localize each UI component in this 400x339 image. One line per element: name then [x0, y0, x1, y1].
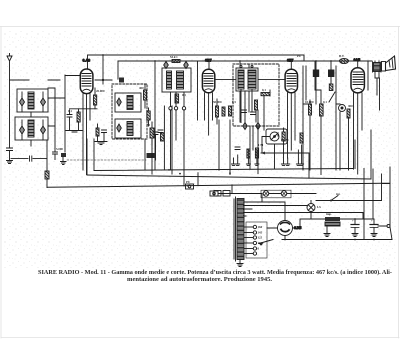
resistor R5 (between trimmers)	[172, 60, 180, 63]
tap labels	[258, 225, 263, 251]
wire V2 pins	[205, 93, 213, 135]
capacitor C9	[242, 110, 247, 113]
electrolytic capacitor CE1	[351, 219, 359, 237]
bus line 2	[87, 175, 371, 179]
page border faint line right	[398, 27, 400, 339]
resistor R11	[255, 100, 258, 110]
transformer top taps	[244, 202, 364, 219]
junction (osc)	[102, 79, 104, 81]
svg-text:0,1: 0,1	[323, 100, 327, 104]
wire x47 riser	[46, 140, 48, 171]
tiny value labels	[56, 54, 373, 223]
tap terminal circles	[244, 225, 257, 255]
speaker	[382, 56, 396, 71]
oscillator shield box (dashed)	[112, 84, 147, 139]
svg-text:145: 145	[258, 231, 263, 235]
svg-text:0,5 M: 0,5 M	[281, 138, 289, 142]
wire cathode row	[70, 108, 98, 110]
resistor R1	[94, 88, 97, 109]
AVC terminating capacitor	[147, 153, 155, 158]
capacitor C1 (antenna series)	[7, 148, 13, 160]
svg-text:mentazione ad autotrasformator: mentazione ad autotrasformatore. Produzi…	[127, 277, 272, 283]
bus line 3	[47, 183, 390, 187]
tap terminals box	[246, 222, 267, 258]
rectifier tube V5 6X5	[278, 221, 293, 236]
wire T2 bottom stubs	[241, 89, 258, 123]
capacitor C11	[235, 147, 240, 150]
svg-text:int.: int.	[336, 192, 341, 196]
T2 frame	[236, 68, 258, 91]
wire V4 anode	[357, 61, 359, 68]
resistor R6	[175, 94, 179, 103]
svg-text:imp.: imp.	[326, 212, 332, 216]
trimmer CV10	[256, 123, 260, 130]
trimmer CV9	[243, 123, 247, 130]
electrolytic capacitor CE2	[370, 219, 378, 237]
terminal right	[378, 225, 392, 240]
tube V3 6E7	[285, 69, 297, 93]
svg-text:0,1: 0,1	[262, 88, 266, 92]
T1 terminal circles	[169, 107, 172, 110]
wire V1 pins	[83, 94, 90, 175]
pilot lamp	[307, 201, 315, 220]
antenna coil box L2	[15, 117, 48, 140]
resistor R18	[347, 109, 350, 170]
resistor R9	[229, 106, 232, 116]
page border faint line bottom	[1, 337, 399, 339]
svg-text:+: +	[371, 219, 373, 223]
resistor R15	[300, 133, 303, 143]
AVC return wire with arrow	[261, 153, 309, 170]
page border faint line top	[0, 26, 400, 28]
capacitor C12 (mica block)	[313, 61, 319, 104]
wire x155	[154, 61, 156, 170]
wire x118	[117, 61, 119, 79]
capacitor C4b	[102, 130, 107, 141]
svg-text:5.000: 5.000	[56, 147, 63, 151]
output transformer T3	[373, 61, 382, 78]
misc verticals to buses	[145, 106, 258, 174]
capacitor C4	[67, 110, 72, 130]
svg-text:M.F.1: M.F.1	[170, 55, 178, 59]
arrowhead	[261, 152, 265, 155]
phono jack 1	[186, 184, 194, 189]
svg-text:6A5: 6A5	[354, 58, 361, 62]
page border faint line left	[0, 27, 2, 339]
extra verticals right section	[218, 61, 340, 194]
svg-text:0,5: 0,5	[232, 100, 236, 104]
resistor R4	[150, 122, 154, 145]
wire vertical x65	[64, 75, 66, 152]
IF transformer T2 winding b	[248, 70, 256, 89]
wire T2 top	[215, 61, 285, 79]
ground (choke)	[324, 226, 330, 237]
AVC left segment	[11, 158, 47, 160]
svg-text:10.000: 10.000	[305, 100, 314, 104]
ground (C2)	[61, 162, 67, 165]
junction S2	[330, 200, 332, 202]
svg-text:+: +	[352, 219, 354, 223]
osc coil assembly 2	[115, 119, 141, 138]
volume potentiometer	[266, 129, 287, 144]
svg-text:400: 400	[348, 104, 353, 108]
resistor R17	[320, 104, 324, 175]
wire pot left	[262, 137, 270, 154]
wire verticals V3-V4 section	[303, 66, 340, 170]
wire pot wiper down	[274, 144, 276, 169]
svg-text:1 M: 1 M	[258, 143, 263, 147]
power transformer core	[234, 197, 236, 261]
tube V4 6A5	[351, 68, 364, 93]
resistor R6b	[161, 133, 164, 141]
osc coil assembly 1	[115, 93, 141, 112]
resistor R12	[247, 149, 250, 158]
top bus line A	[88, 55, 304, 61]
trimmer CV5	[117, 98, 122, 106]
AVC dashed line	[67, 159, 146, 161]
trimmer CV1	[20, 98, 25, 106]
ground (antenna)	[7, 161, 13, 164]
capacitor C13 (mica block)	[328, 61, 334, 84]
resistor R17b (dark)	[329, 84, 333, 91]
wire T1 below	[171, 92, 185, 107]
capacitor C14 (series)	[30, 156, 32, 161]
capacitor C6	[158, 130, 163, 133]
IF transformer T2 winding a	[238, 70, 244, 89]
mains plug left	[214, 191, 230, 197]
tube V2 6B7	[202, 69, 214, 93]
ground row under detector	[232, 150, 259, 165]
wire rectifier sides	[267, 227, 300, 229]
resistor R10	[261, 93, 270, 96]
svg-text:B.T.: B.T.	[339, 54, 345, 58]
trimmer CV7	[164, 62, 169, 69]
B- return line	[282, 239, 392, 241]
transformer bottom ground	[237, 260, 243, 267]
wire x87 from osc to bus2	[86, 139, 88, 175]
resistor R13	[255, 148, 258, 158]
wire speaker return	[368, 61, 382, 201]
trimmer CV6	[117, 124, 122, 132]
mains line	[232, 193, 262, 195]
svg-text:50.000: 50.000	[213, 100, 222, 104]
bus line 1	[94, 169, 353, 171]
resistor R2b	[96, 124, 99, 141]
tube V1 6A8	[80, 69, 93, 94]
power transformer winding	[237, 199, 244, 260]
heater line	[316, 200, 382, 202]
resistor R8	[222, 107, 225, 116]
fuse/lamp on bus	[340, 58, 349, 63]
wire x94 from osc to bus1	[93, 139, 95, 170]
detector shield box (dashed)	[233, 64, 279, 126]
switch S2	[331, 196, 338, 201]
svg-text:0,1: 0,1	[182, 93, 186, 97]
wire rectifier top	[262, 194, 285, 221]
filter choke	[300, 217, 374, 228]
wire V3 anode	[290, 61, 292, 69]
resistor R7	[216, 99, 219, 124]
svg-text:125: 125	[258, 236, 263, 240]
svg-text:50: 50	[147, 123, 151, 127]
T2 terminals	[240, 66, 242, 68]
capacitor C7	[153, 132, 158, 160]
svg-text:160: 160	[258, 225, 263, 229]
wire V1 anode to top bus	[87, 55, 89, 69]
junction dots on buses	[168, 169, 170, 171]
svg-text:0,1: 0,1	[68, 109, 72, 113]
wire x103 osc feed	[102, 55, 104, 84]
capacitor C5 (padder, dark)	[119, 78, 124, 83]
fuse F1	[263, 191, 269, 197]
wire det verticals	[240, 90, 270, 130]
trimmer CV2	[41, 98, 46, 106]
capacitor C2	[61, 153, 66, 161]
svg-text:LS: LS	[317, 205, 321, 209]
trimmer CV4	[41, 126, 46, 134]
antenna coil box L1	[17, 89, 48, 112]
voltage selector arrow	[259, 240, 273, 244]
resistor R3	[144, 84, 147, 108]
right verticals to power	[355, 140, 390, 240]
resistor R19	[45, 171, 49, 188]
wire grid feed to V1	[48, 76, 80, 81]
switch S1	[329, 92, 335, 102]
wire fuse link	[269, 193, 316, 195]
wire x219/x230	[219, 120, 230, 175]
ground (cathode)	[66, 131, 82, 133]
ground row under V3	[282, 145, 304, 165]
right section risers	[309, 130, 371, 179]
antenna	[7, 54, 12, 148]
wire V2 anode	[208, 61, 210, 69]
wire rectifier bottom	[284, 236, 286, 240]
phono jack 2	[210, 191, 218, 196]
wire V4 pins	[354, 93, 363, 174]
wire osc top	[95, 79, 112, 81]
wire jack riser	[197, 173, 199, 186]
IF transformer T1	[162, 68, 191, 92]
fuse F2	[281, 191, 287, 197]
wire left of V2	[197, 61, 199, 120]
resistor R14	[282, 128, 285, 150]
fuse block box	[261, 190, 291, 198]
trimmer CV3	[20, 126, 25, 134]
wire vertical x55	[48, 88, 55, 152]
ground (screen)	[95, 142, 107, 145]
svg-text:400: 400	[139, 86, 144, 90]
wire antenna to coil	[10, 79, 30, 81]
trimmer CV8	[184, 62, 189, 69]
wire V3 pins	[288, 93, 296, 158]
tone capacitor circle	[339, 105, 346, 112]
resistor R16	[309, 104, 312, 170]
resistor R3b	[147, 108, 150, 126]
resistor R2	[77, 109, 80, 130]
capacitor C10	[251, 112, 256, 115]
svg-text:6.A8: 6.A8	[83, 58, 91, 62]
junction dots on top bus	[154, 60, 156, 62]
top bus line B	[118, 60, 372, 62]
capacitor C3	[53, 152, 58, 160]
svg-text:20.000: 20.000	[96, 89, 105, 93]
svg-text:SIARE RADIO - Mod. 11 - Gamma: SIARE RADIO - Mod. 11 - Gamma onde medie…	[38, 269, 392, 276]
wire coil outputs	[31, 98, 65, 146]
